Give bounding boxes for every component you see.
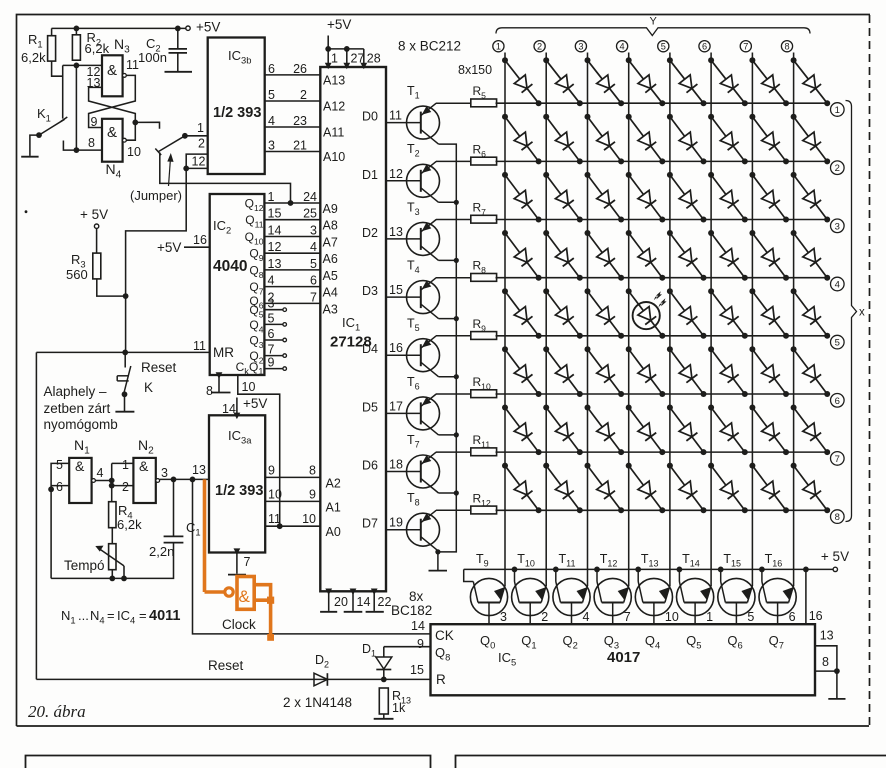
node R2 top (74, 26, 80, 32)
ground K1 contact bar (21, 156, 38, 158)
svg-text:7: 7 (268, 343, 275, 357)
svg-text:+5V: +5V (157, 240, 181, 255)
svg-text:24: 24 (303, 190, 317, 204)
wire IC3b pin 3 to IC1 pin 21 (A10) (265, 139, 346, 165)
LED row 5 col 1 (502, 288, 542, 339)
svg-text:13: 13 (192, 463, 206, 477)
wire IC3b pin 12 (186, 155, 208, 169)
svg-text:22: 22 (378, 595, 392, 609)
transistor T14 BC182 column 6 driver (677, 552, 714, 624)
svg-text:16: 16 (809, 609, 823, 623)
node N1out (109, 478, 115, 484)
potentiometer Tempo (64, 544, 124, 579)
wire IC3a pin 10 to IC1 pin 9 (A1) (265, 487, 341, 514)
svg-text:MR: MR (213, 345, 234, 360)
IC5 output Q2 label (563, 633, 578, 651)
wire matrix row 3 line (496, 219, 845, 233)
svg-text:A13: A13 (323, 73, 345, 87)
label Alaphelyzetben zart nyomogomb (44, 384, 118, 432)
wire matrix row 5 line (496, 335, 845, 349)
LED row 8 col 1 (502, 463, 542, 514)
LED row 8 col 4 (626, 463, 666, 514)
ground C2 (165, 71, 193, 73)
svg-text:20: 20 (334, 595, 348, 609)
NAND gate N4 (102, 119, 141, 181)
resistor R2 (72, 28, 109, 60)
wire +5V rail T9-T16 (464, 568, 833, 570)
wire R4 to pot (111, 528, 113, 544)
node T12 collector rail (594, 567, 600, 573)
terminal +5V top-left (186, 20, 221, 35)
svg-text:15: 15 (268, 207, 282, 221)
svg-text:4: 4 (835, 280, 840, 291)
svg-text:2 x 1N4148: 2 x 1N4148 (283, 695, 352, 710)
svg-text:26: 26 (293, 62, 307, 76)
svg-text:6: 6 (268, 327, 275, 341)
resistor R8 150 row 4 (436, 259, 497, 282)
LED row 5 col 4 (highlighted with circle) (626, 288, 667, 339)
node T16 collector rail (759, 567, 765, 573)
node N2 pin2 join (109, 483, 115, 489)
wire N2 output to IC3a pin13 (160, 478, 209, 480)
LED row 6 col 2 (543, 346, 583, 397)
LED row 3 col 6 (708, 172, 748, 223)
wire matrix column 7 line (740, 41, 752, 586)
label 8x150 (458, 63, 492, 77)
svg-text:A1: A1 (326, 500, 341, 514)
svg-text:8: 8 (784, 42, 789, 52)
svg-text:2: 2 (122, 480, 129, 494)
annotation added NAND gate (orange) clock gating (205, 479, 275, 640)
transistor T7 BC212 row 7 driver (362, 433, 439, 493)
LED row 2 col 8 (791, 114, 831, 165)
svg-text:5: 5 (56, 458, 63, 472)
svg-text:5: 5 (661, 42, 666, 52)
LED row 8 col 6 (708, 463, 748, 514)
wire Reset line (36, 352, 430, 679)
LED row 7 col 8 (791, 405, 831, 456)
LED row 3 col 8 (791, 172, 831, 223)
wire oscillator bottom rail (51, 543, 173, 579)
switch K1 (36, 106, 67, 138)
svg-text:2: 2 (198, 137, 205, 151)
LED row 7 col 2 (543, 405, 583, 456)
LED row 1 col 8 (791, 57, 831, 106)
node T11 collector rail (553, 567, 559, 573)
svg-text:+ 5V: + 5V (80, 207, 108, 222)
LED row 3 col 7 (749, 172, 789, 223)
wire N3 pin12 input (63, 65, 102, 79)
svg-text:D1: D1 (362, 168, 378, 182)
wire matrix row 4 line (496, 277, 845, 291)
resistor R10 150 row 6 (436, 375, 497, 398)
IC3b counter 1/2 393 (208, 38, 265, 175)
transistor T2 BC212 row 2 driver (362, 142, 439, 202)
svg-text:8: 8 (835, 512, 840, 523)
svg-text:Clock: Clock (222, 617, 256, 632)
svg-text:5: 5 (268, 88, 275, 102)
svg-text:8: 8 (309, 463, 316, 477)
NAND gate N3 (102, 36, 139, 96)
svg-text:3: 3 (835, 221, 840, 232)
node jumper pole (182, 133, 188, 139)
node pin12 junction (183, 166, 189, 172)
svg-text:100n: 100n (138, 50, 167, 65)
svg-text:A2: A2 (326, 476, 341, 490)
svg-text:=: = (139, 608, 147, 623)
svg-text:5: 5 (268, 311, 275, 325)
next figure box bottom-right (456, 756, 886, 768)
IC5 output Q5 label (686, 633, 701, 651)
svg-text:1: 1 (268, 190, 275, 204)
svg-text:4011: 4011 (149, 608, 180, 624)
LED row 1 col 3 (585, 57, 625, 106)
IC3a pin 7 ground (228, 548, 251, 574)
transistor T13 BC182 column 5 driver (635, 552, 679, 624)
svg-text:CK: CK (435, 628, 454, 643)
LED row 1 col 4 (626, 57, 666, 106)
wire N4 pin8 input (63, 136, 102, 150)
svg-text:A6: A6 (323, 252, 338, 266)
svg-text:1: 1 (835, 105, 840, 116)
svg-text:4: 4 (620, 42, 625, 52)
LED row 7 col 6 (708, 405, 748, 456)
svg-text:+ 5V: + 5V (821, 549, 849, 564)
IC5 CK pin 14 label (411, 619, 454, 643)
svg-text:1: 1 (706, 610, 713, 624)
wire matrix column 2 line (534, 41, 546, 586)
node R2 to pin8 (74, 147, 80, 153)
svg-text:D6: D6 (362, 459, 378, 473)
IC2 counter 4040 (210, 194, 265, 375)
IC5 pin 8 ground (815, 655, 846, 699)
LED row 3 col 2 (543, 172, 583, 223)
svg-text:7: 7 (835, 454, 840, 465)
svg-text:9: 9 (268, 356, 275, 370)
svg-text:3: 3 (268, 297, 275, 311)
svg-text:14: 14 (268, 224, 282, 238)
svg-text:16: 16 (193, 233, 207, 247)
node C2 top (175, 26, 181, 32)
LED row 1 col 6 (708, 57, 748, 106)
svg-text:8: 8 (88, 136, 95, 150)
svg-text:1/2 393: 1/2 393 (215, 483, 263, 499)
IC5 output Q0 label (480, 633, 495, 651)
svg-text:+5V: +5V (327, 17, 351, 32)
svg-text:R: R (436, 672, 446, 687)
node C1 top (171, 477, 177, 483)
svg-text:nyomógomb: nyomógomb (44, 417, 118, 432)
node MR-pushbutton (122, 350, 128, 356)
LED row 5 col 7 (749, 288, 789, 339)
svg-text:1/2 393: 1/2 393 (213, 105, 261, 121)
svg-text:5: 5 (310, 257, 317, 271)
wire matrix column 6 line (699, 41, 711, 586)
wire MR line (36, 351, 209, 353)
wire latch output to jumper contact (135, 122, 159, 128)
wire T4 collector to common line (439, 316, 459, 321)
svg-text:27: 27 (351, 52, 365, 66)
svg-text:K: K (144, 380, 153, 395)
node Q12-A9 junction (288, 200, 294, 206)
LED row 4 col 3 (585, 230, 625, 281)
wire reset net: pin12 down-left to R3/MR column (126, 168, 187, 352)
IC2 output Q2 pin 7 open stub (249, 343, 286, 366)
wire IC3a pin 11 to IC1 pin 10 (A0) (265, 512, 341, 539)
label 8x BC182 (391, 589, 432, 618)
LED row 6 col 8 (791, 346, 831, 397)
svg-text:8: 8 (822, 655, 829, 669)
svg-text:10: 10 (242, 380, 256, 394)
IC2 output Q3 pin 6 open stub (249, 327, 286, 350)
resistor R3 560 (66, 228, 101, 282)
label Clock (222, 617, 256, 632)
label 2 x 1N4148 (283, 695, 352, 710)
svg-text:6,2k: 6,2k (85, 41, 110, 56)
wire N3 output cross-couple to N4 pin9 (89, 75, 136, 129)
svg-text:12: 12 (192, 155, 206, 169)
IC5 Q8 pin 9 (384, 637, 451, 663)
transistor T3 BC212 row 3 driver (362, 200, 439, 260)
svg-text:1: 1 (331, 52, 338, 66)
wire 4017 pin 16 (806, 569, 823, 624)
svg-text:&: & (139, 458, 149, 474)
svg-text:9: 9 (268, 463, 275, 477)
svg-text:560: 560 (66, 267, 88, 282)
svg-text:A5: A5 (323, 269, 338, 283)
transistor T11 BC182 column 3 driver (553, 552, 590, 624)
svg-text:13: 13 (268, 257, 282, 271)
LED row 6 col 7 (749, 346, 789, 397)
svg-text:15: 15 (410, 663, 424, 677)
svg-text:Reset: Reset (208, 658, 244, 673)
svg-text:&: & (75, 458, 85, 474)
IC5 output Q1 label (521, 633, 536, 651)
LED row 1 col 2 (543, 57, 583, 106)
svg-text:D4: D4 (362, 342, 378, 356)
LED row 6 col 3 (585, 346, 625, 397)
capacitor C1 2,2n (149, 479, 201, 559)
wire N4 output cross-couple to N3 pin13 (87, 76, 136, 140)
brace Y over columns (496, 16, 810, 36)
resistor R13 1k (379, 688, 411, 718)
svg-text:10: 10 (268, 487, 282, 501)
wire matrix column 8 line (781, 41, 793, 586)
svg-text:D3: D3 (362, 284, 378, 298)
svg-text:A8: A8 (323, 219, 338, 233)
LED row 4 col 1 (502, 230, 542, 281)
svg-text:9: 9 (417, 637, 424, 651)
svg-text:3: 3 (161, 466, 168, 480)
svg-text:4: 4 (268, 274, 275, 288)
IC2 pin 16 +5V (157, 233, 210, 255)
svg-text:=: = (107, 608, 115, 623)
svg-text:A11: A11 (323, 126, 344, 140)
jumper lever (155, 136, 185, 155)
svg-text:+5V: +5V (243, 396, 267, 411)
LED row 2 col 5 (667, 114, 707, 165)
svg-text:1: 1 (122, 458, 129, 472)
wire IC2 Q12 pin 1 to IC1 pin 24 (A9) (245, 190, 338, 216)
svg-text:14: 14 (357, 595, 371, 609)
transistor T16 BC182 column 8 driver (759, 552, 796, 624)
svg-text:2: 2 (835, 163, 840, 174)
transistor T10 BC182 column 2 driver (512, 552, 549, 624)
wire T7 collector to common line (439, 490, 459, 495)
LED row 4 col 5 (667, 230, 707, 281)
node R2 bottom (74, 63, 80, 69)
svg-text:A9: A9 (323, 202, 338, 216)
ground R13 (374, 718, 394, 720)
wire K1 pole to contact bar (30, 135, 39, 156)
node T8 collector join (435, 549, 440, 554)
svg-text:21: 21 (293, 139, 307, 153)
wire IC2 Q6 pin 2 to IC1 pin 7 (A3) (249, 290, 337, 316)
wire pot bottom (111, 570, 113, 579)
svg-text:23: 23 (293, 114, 307, 128)
IC2 pin 8 ground (206, 372, 231, 398)
label Reset (208, 658, 244, 673)
terminal +5V matrix (821, 549, 849, 572)
resistor R6 150 row 2 (436, 142, 497, 165)
pushbutton K (NC) Reset (117, 352, 176, 411)
svg-text:19: 19 (389, 516, 403, 530)
IC1 +5V pins 1 27 28 (325, 17, 381, 69)
diode D2 1N4148 (314, 653, 329, 686)
LED row 5 col 8 (791, 288, 831, 339)
svg-text:9: 9 (309, 487, 316, 501)
svg-text:+5V: +5V (196, 20, 220, 35)
svg-text:20. ábra: 20. ábra (28, 702, 86, 721)
svg-text:zetben zárt: zetben zárt (44, 401, 111, 416)
svg-text:8x: 8x (409, 589, 424, 604)
svg-text:3: 3 (268, 139, 275, 153)
wire T1-T8 common collector to ground (438, 144, 456, 570)
LED row 3 col 1 (502, 172, 542, 223)
svg-text:Tempó: Tempó (64, 558, 105, 573)
transistor T15 BC182 column 7 driver (718, 552, 755, 624)
wire matrix row 6 line (496, 394, 845, 408)
svg-text:D2: D2 (362, 226, 378, 240)
svg-text:2: 2 (537, 42, 542, 52)
svg-text:6: 6 (835, 396, 840, 407)
svg-text:7: 7 (244, 555, 251, 569)
transistor T5 BC212 row 5 driver (362, 317, 439, 377)
node T14 collector rail (677, 567, 683, 573)
IC1 EPROM 27128 (320, 67, 386, 591)
svg-text:D7: D7 (362, 517, 378, 531)
LED row 7 col 3 (585, 405, 625, 456)
svg-text:Alaphely –: Alaphely – (44, 384, 108, 399)
wire IC2 Q7 pin 4 to IC1 pin 6 (A4) (249, 274, 337, 300)
IC3a counter 1/2 393 (209, 415, 265, 552)
IC5 4017 (431, 624, 816, 695)
wire IC3a pin 9 to IC1 pin 8 (A2) (265, 463, 341, 490)
wire clock line to IC5 CK (193, 479, 431, 634)
node N1 input join (48, 486, 54, 492)
LED row 6 col 4 (626, 346, 666, 397)
LED row 1 col 7 (749, 57, 789, 106)
wire T2 collector to common line (439, 200, 459, 205)
capacitor C2 100n (138, 28, 187, 71)
svg-text:7: 7 (624, 610, 631, 624)
svg-text:28: 28 (367, 52, 381, 66)
svg-text:11: 11 (389, 109, 402, 123)
LED row 4 col 4 (626, 230, 666, 281)
terminal +5V R3 (80, 207, 108, 228)
label (Jumper) (130, 188, 182, 203)
svg-text:6: 6 (56, 480, 63, 494)
wire matrix column 5 line (658, 41, 670, 586)
wire T6 collector to common line (439, 432, 459, 437)
resistor R4 6,2k (109, 502, 142, 532)
resistor R5 150 row 1 (436, 84, 497, 107)
svg-text:1: 1 (496, 42, 501, 52)
svg-text:8: 8 (206, 384, 213, 398)
wire R3 bottom to reset column (97, 279, 126, 296)
svg-text:16: 16 (389, 341, 403, 355)
svg-text:11: 11 (126, 58, 139, 72)
IC2 output Q4 pin 5 open stub (249, 311, 286, 334)
wire R1 bottom to K1/N3 input (52, 61, 63, 76)
LED row 6 col 6 (708, 346, 748, 397)
IC1 ground pins 20 14 22 (320, 589, 391, 612)
ground T8 emitter line (429, 570, 448, 572)
node T15 collector rail (718, 567, 724, 573)
LED row 8 col 5 (667, 463, 707, 514)
wire IC3b pin 1 clock input (185, 121, 208, 136)
svg-text:11: 11 (193, 339, 206, 353)
svg-text:A12: A12 (323, 100, 345, 114)
resistor R7 150 row 3 (436, 201, 497, 224)
IC5 R pin 15 label (410, 663, 446, 687)
wire N1 pins 5-6 tied (51, 463, 69, 489)
transistor T1 BC212 row 1 driver (362, 84, 439, 144)
svg-text:8 x BC212: 8 x BC212 (398, 39, 461, 54)
LED row 1 col 5 (667, 57, 707, 106)
IC3a pin 13 label (192, 463, 206, 477)
svg-text:2: 2 (300, 88, 307, 102)
LED row 7 col 7 (749, 405, 789, 456)
svg-text:1: 1 (197, 121, 204, 135)
svg-text:4017: 4017 (607, 649, 640, 666)
svg-text:9: 9 (91, 115, 98, 129)
NAND gate N1 (56, 437, 104, 503)
svg-text:25: 25 (303, 207, 317, 221)
svg-text:D5: D5 (362, 400, 378, 414)
svg-text:4: 4 (583, 610, 590, 624)
svg-text:10: 10 (127, 145, 141, 159)
svg-text:14: 14 (411, 619, 425, 633)
svg-text:1k: 1k (392, 701, 406, 715)
resistor R11 150 row 7 (436, 433, 497, 456)
LED row 2 col 1 (502, 114, 542, 165)
jumper arrow (167, 153, 173, 186)
wire IC2 Q8 pin 13 to IC1 pin 5 (A5) (249, 257, 337, 283)
svg-text:3: 3 (310, 224, 317, 238)
svg-text:11: 11 (268, 512, 281, 526)
svg-text:14: 14 (222, 402, 236, 416)
svg-text:18: 18 (389, 458, 403, 472)
svg-text:4: 4 (310, 240, 317, 254)
ground pushbutton (115, 411, 134, 413)
label N1..N4 = IC4 = 4011 (61, 608, 180, 626)
node R3 join (123, 293, 129, 299)
resistor R12 150 row 8 (436, 491, 497, 514)
svg-text:4040: 4040 (213, 258, 247, 275)
svg-text:2: 2 (541, 610, 548, 624)
LED row 5 col 6 (708, 288, 748, 339)
